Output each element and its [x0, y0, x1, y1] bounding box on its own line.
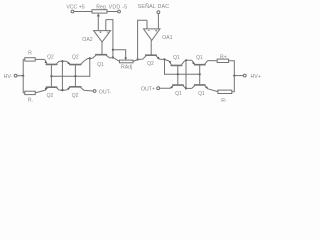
svg-text:Q2: Q2 — [47, 55, 54, 61]
svg-text:VCC +5: VCC +5 — [66, 4, 84, 10]
wire OA1 output — [150, 40, 152, 54]
wire rail Q1 to R+ — [208, 60, 217, 62]
wire VCC+5 to Reg — [74, 11, 92, 13]
wire OA2 output — [101, 42, 103, 54]
svg-text:VDD -5: VDD -5 — [109, 5, 128, 11]
svg-text:Q2: Q2 — [72, 93, 79, 99]
node base tie Q1 pair 2 — [199, 73, 201, 75]
svg-text:Q1: Q1 — [196, 55, 203, 61]
wire rail Q2 to Q1 — [84, 58, 92, 61]
op-amp OA1 — [144, 20, 173, 41]
svg-text:Q1: Q1 — [97, 62, 104, 68]
svg-text:Q1: Q1 — [173, 55, 180, 61]
potentiometer RAdj — [113, 50, 133, 71]
node HV- split — [22, 75, 24, 77]
power terminal VCC +5 — [66, 4, 84, 13]
transistor Q1 (right bottom row 1) — [170, 74, 186, 97]
node right mid vertical top — [185, 59, 187, 61]
wire rail to Q2 right — [138, 58, 143, 60]
node base tie Q2 pair 1 — [50, 75, 52, 77]
terminal OUT+ — [141, 86, 170, 92]
node base tie Q1 pair 1 — [177, 73, 179, 75]
wire top rail between Q2s — [59, 60, 66, 62]
transistor Q2 (bottom row 2) — [66, 76, 83, 99]
power terminal VDD -5 — [109, 5, 128, 13]
wire OA2 feedback loop — [106, 20, 113, 58]
svg-text:Q2: Q2 — [147, 61, 154, 67]
transistor Q1 (right top row 1) — [165, 55, 185, 74]
wire bottom rail between Q2s — [59, 89, 66, 91]
wire right mid vertical — [185, 60, 187, 88]
svg-text:R.: R. — [28, 98, 33, 104]
transistor Q1 (right bottom row 2) — [192, 74, 208, 97]
terminal SENAL DAC — [138, 3, 170, 29]
svg-text:OUT+: OUT+ — [141, 86, 155, 92]
svg-text:HV+: HV+ — [251, 74, 261, 80]
svg-text:Q1: Q1 — [198, 91, 205, 97]
svg-text:OUT-: OUT- — [99, 89, 112, 95]
transistor Q1 (left block, driven by OA2) — [93, 54, 110, 68]
wire mid vertical (output node) — [61, 61, 63, 90]
wire Reg to VDD-5 — [107, 11, 117, 13]
wire R to Q2 emitter — [35, 58, 44, 60]
node T junction to RAdj wiper — [112, 49, 114, 51]
svg-text:HV-: HV- — [4, 74, 13, 80]
transistor Q2 (top row 1) — [44, 55, 59, 76]
node HV+ junction — [233, 75, 235, 77]
wire RAdj to right rail — [133, 60, 138, 62]
terminal HV- — [4, 74, 24, 80]
resistor R- — [218, 90, 232, 104]
svg-text:Q2: Q2 — [47, 93, 54, 99]
wire R- to HV+ — [232, 76, 235, 92]
wire rail Q2R to corner — [159, 58, 164, 60]
terminal HV+ — [234, 74, 260, 80]
svg-text:R-: R- — [221, 98, 227, 104]
resistor R+ — [217, 54, 228, 62]
wire bottom rail between Q1s — [186, 87, 192, 89]
wire pot wiper to OA2 + input — [97, 15, 99, 31]
wire rail Q1 to RAdj — [110, 58, 120, 62]
resistor R bottom-left — [23, 91, 35, 103]
wire rail between Q1s — [184, 59, 192, 62]
svg-text:Q2: Q2 — [72, 55, 79, 61]
svg-text:R: R — [28, 51, 32, 57]
wire HV- vertical — [22, 59, 24, 93]
wire R+ to HV+ — [229, 61, 235, 76]
potentiometer Reg — [92, 5, 107, 17]
svg-text:SEÑAL DAC: SEÑAL DAC — [138, 3, 170, 10]
node mid vertical top — [61, 60, 63, 62]
wire R to Q2 bottom — [35, 90, 45, 93]
node OA2 feedback to rail — [112, 56, 114, 58]
wire OA1 feedback loop — [138, 20, 147, 59]
svg-text:RAdj: RAdj — [121, 64, 132, 70]
svg-text:OA1: OA1 — [162, 35, 172, 41]
transistor Q2 (top row 2) — [66, 55, 84, 76]
terminal OUT- — [84, 89, 112, 95]
resistor R top-left — [23, 51, 35, 62]
node OA1 feedback to rail — [137, 58, 139, 60]
op-amp OA2 — [82, 20, 110, 43]
wire Q1 to R- — [208, 89, 218, 92]
wire right base tie corner — [165, 59, 200, 74]
node base tie Q2 pair 2 — [74, 75, 76, 77]
node mid vertical bottom — [61, 89, 63, 91]
svg-text:Q1: Q1 — [175, 91, 182, 97]
transistor Q1 (right top row 2) — [192, 55, 208, 74]
node rail to base tie — [89, 57, 91, 59]
svg-text:OA2: OA2 — [82, 37, 92, 43]
wire base tie corner — [51, 58, 90, 76]
transistor Q2 (bottom row 1) — [45, 76, 59, 99]
node right rail to base tie — [163, 58, 165, 60]
transistor Q2 (right block, driven by OA1) — [143, 54, 160, 67]
node right mid vertical bottom — [185, 87, 187, 89]
